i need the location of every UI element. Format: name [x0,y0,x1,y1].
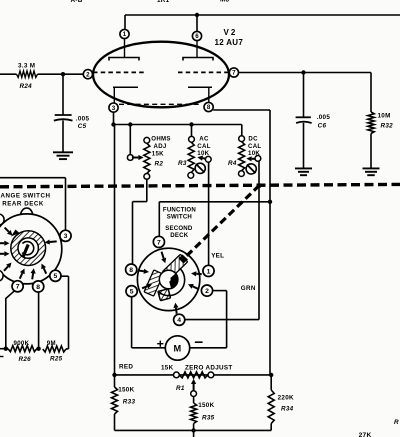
resistor R25 9M [43,346,66,352]
wire contact7 drop (range) [6,291,15,349]
contact 1 (func) [203,265,214,276]
grid section B [178,71,229,73]
wire contact2 dogleg [213,290,227,292]
potentiometer R2 [144,143,150,173]
resistor R33 150K [112,387,118,414]
svg-text:8: 8 [129,267,133,274]
svg-text:YEL: YEL [211,252,224,259]
terminal R3 wiper [205,156,211,162]
function rotor arc [158,268,185,295]
terminal R2 top [144,137,150,143]
terminal R4 bottom [239,171,245,177]
svg-text:2: 2 [205,288,209,295]
pin 1 [120,29,129,38]
tube V2 envelope [93,42,229,108]
wire C6 upper [303,73,305,118]
svg-text:27K: 27K [359,432,372,437]
contact 8 (func) [126,264,137,275]
wire meter minus side [190,347,227,349]
wire input left [0,73,17,75]
cut contact left-top (range) [0,214,4,225]
contact 5 arrow (func) [142,286,147,288]
wire R2 bottom drop [146,179,148,201]
range rotor pointer [22,242,34,255]
svg-text:R4: R4 [228,160,237,167]
ground R32 [363,167,380,169]
svg-text:4: 4 [177,317,181,324]
resistor R32 [368,112,374,134]
wire R33 lower [114,414,116,430]
svg-text:R34: R34 [281,406,294,413]
terminal R3 bottom [188,172,194,178]
svg-text:7: 7 [157,239,161,246]
wire R34 upper [270,375,272,390]
wire dogleg R2-contact8 [133,201,147,203]
junction C6 tap [301,70,305,74]
svg-text:R1: R1 [176,385,185,392]
mechanical gang dashed line [0,184,400,186]
wire contact7 net [159,201,270,203]
wire pin 3 drop [113,112,115,124]
svg-text:12 AU7: 12 AU7 [215,38,244,47]
svg-text:8: 8 [36,284,40,291]
wire R2 wiper riser [129,125,131,155]
potentiometer R3 [188,142,194,172]
wire zero adjust rail [115,374,272,376]
svg-text:10K: 10K [197,150,209,157]
contact 3 (range) [60,230,71,241]
svg-text:ANGE SWITCH: ANGE SWITCH [1,193,51,200]
svg-text:SECOND: SECOND [165,225,193,232]
svg-text:1R1: 1R1 [157,0,170,4]
svg-text:15K: 15K [161,365,174,372]
wire contact8 drop (range) [38,292,40,349]
contact 7 (func) [153,236,164,247]
contact 8 arrow (range) [31,273,34,279]
svg-text:7: 7 [232,70,236,77]
terminal R1 wiper [191,391,197,397]
svg-text:2: 2 [86,71,90,78]
wire R34 lower [270,424,272,431]
junction x270 y201 [268,200,272,204]
wire pin 1 riser [124,15,126,30]
contact 7 (range) [12,281,23,292]
svg-text:.005: .005 [76,116,90,123]
function switch body [137,248,199,310]
screwdriver adjust R4 [246,164,256,174]
resistor R35 150K [191,403,197,424]
terminal R1 left [174,372,180,378]
svg-text:7: 7 [16,284,20,291]
stub left edge [0,356,4,358]
cathode section A [113,86,138,88]
ground C6 [295,167,312,169]
junction gang diagonal [257,183,262,188]
svg-text:R2: R2 [155,161,164,168]
svg-text:R33: R33 [123,398,136,405]
svg-text:M8: M8 [220,0,230,4]
screwdriver adjust R3 [195,163,205,173]
terminal R4 wiper [255,156,261,162]
function rotor bar lower [144,270,163,296]
junction bottom [191,428,195,432]
junction bus R2 wiper [128,122,132,126]
wire R4 wiper drop [258,161,260,319]
pin 6 [192,31,201,40]
function rotor bar upper [162,254,187,279]
contact 2 arrow (func) [193,286,198,288]
contact 4 arrow (func) [175,308,178,314]
terminal R1 right [208,372,214,378]
range rotor notch [11,230,20,237]
wire meter plus side [132,347,166,349]
wire C6 lower [303,123,305,169]
wiper arrow R4 [252,158,258,160]
junction 900K left [4,347,8,351]
svg-text:150K: 150K [198,402,214,409]
pin 7 [229,68,238,77]
wire R1 wiper to R35 [193,397,195,404]
cut contact arrow left-bottom [4,266,8,270]
junction RED [112,373,116,377]
meter M [165,336,189,360]
terminal R3 top [189,136,195,142]
svg-text:1: 1 [207,268,211,275]
svg-text:GRN: GRN [241,285,256,292]
svg-text:C5: C5 [78,123,87,130]
junction top rail / pin 6 [195,13,199,17]
wire pin 8 out [213,109,270,111]
svg-text:CAL: CAL [248,143,261,150]
svg-text:REAR DECK: REAR DECK [2,200,44,207]
svg-text:R3: R3 [178,160,187,167]
wire pin8 vertical x270 [269,110,271,375]
pin 3 [109,103,118,112]
cathode section B [188,86,212,88]
wire R35 lower [193,424,195,431]
svg-text:DC: DC [248,136,258,143]
wiper arrow R2 [132,157,139,159]
wire pin 6 riser [196,15,198,32]
wiper arrow R1 [193,384,195,391]
resistor R34 220K [268,390,274,424]
wire contact 3 feed [0,177,66,179]
svg-text:R32: R32 [381,123,394,130]
svg-text:OHMS: OHMS [151,136,170,143]
svg-text:10K: 10K [248,150,260,157]
svg-text:SWITCH: SWITCH [167,213,192,220]
contact 5 arrow (range) [44,268,47,274]
svg-text:DECK: DECK [170,232,188,239]
wire R3 wiper to contact 1 [208,162,210,265]
svg-text:.005: .005 [317,114,331,121]
svg-text:C6: C6 [318,122,327,129]
wire pin 7 to R32 [239,72,371,74]
pin 8 [204,102,213,111]
wiper arrow R3 [203,157,208,160]
contact 5 (range) [50,270,61,281]
svg-text:V2: V2 [224,28,238,37]
svg-text:150K: 150K [118,387,134,394]
junction bus-left [111,122,115,126]
contact 4 (func) [174,314,185,325]
svg-text:ADJ: ADJ [154,143,167,150]
minus sign [195,341,203,343]
wire R4 top drop [241,125,243,136]
svg-text:CAL: CAL [197,143,210,150]
wire C5 upper [62,74,64,115]
svg-text:3: 3 [64,233,68,240]
contact 8 (range) [33,281,44,292]
svg-text:RED: RED [119,364,133,371]
cut contact arrow left-mid1 [0,242,4,244]
resistor R26 900K [8,346,37,352]
wire bottom rail [115,429,272,431]
svg-text:10M: 10M [378,113,391,120]
junction C5 tap [61,72,65,76]
terminal R2 wiper [127,155,133,161]
cut contact left-bottom (range) [0,270,3,281]
resistor R24 [17,71,38,77]
heater dashes [119,103,201,105]
potentiometer R4 [239,142,245,171]
pin 2 [83,70,92,79]
contact 3 arrow [50,240,57,243]
svg-text:R: R [394,419,399,426]
junction R26 R25 [36,347,40,351]
contact 7 arrow (func) [162,252,164,259]
range rotor ring [14,234,42,262]
capacitor C5 [55,114,72,116]
svg-text:220K: 220K [278,395,294,402]
svg-text:9M: 9M [47,340,56,347]
junction bus R3 [189,122,193,126]
cut contact arrow left-top [5,228,9,232]
plate section B [183,58,213,61]
svg-text:3: 3 [112,105,116,112]
wire left rail x114.5 [114,125,116,388]
svg-text:R25: R25 [50,356,63,363]
junction right rail [269,373,273,377]
function rotor hub [159,270,178,289]
svg-text:M: M [174,344,182,354]
svg-text:6: 6 [195,33,199,40]
terminal R2 bottom [144,174,150,180]
svg-text:15K: 15K [152,150,164,157]
wire contact 7 riser [158,202,160,237]
plate section A [109,58,139,61]
wire bottom stub [193,430,195,437]
wire contact5 to R25 [61,275,69,277]
svg-text:ZERO ADJUST: ZERO ADJUST [185,364,233,371]
svg-text:8: 8 [207,104,211,111]
contact 7 arrow (range) [20,273,23,279]
svg-text:5: 5 [130,289,134,296]
wire R32 upper [370,73,372,113]
wire R32 lower [370,134,372,169]
wire top B+ rail [125,14,400,16]
contact 2 (func) [201,285,212,296]
grid section A [93,71,146,73]
wire bus y124 [114,124,242,126]
svg-text:5: 5 [54,273,58,280]
plus sign [157,343,163,345]
wire contact 8 riser [132,202,134,265]
mechanical gang diagonal [180,185,260,262]
wire contact5 drop (func) [131,297,133,348]
contact 1 arrow (func) [196,273,202,275]
ground C5 [53,151,73,153]
cut contact arrow left-mid2 [0,253,4,255]
terminal R4 top [239,136,245,142]
wire C5 lower [62,120,64,152]
svg-text:900K: 900K [14,340,30,347]
svg-text:A-B: A-B [71,0,83,4]
wire R24 to pin 2 [38,73,84,75]
contact 8 arrow (func) [138,270,144,273]
svg-text:AC: AC [199,136,209,143]
wire contact4 to GRN net [185,319,259,321]
svg-text:R35: R35 [202,414,215,421]
svg-text:3.3 M: 3.3 M [18,63,35,70]
svg-text:R26: R26 [19,356,32,363]
range switch body [0,214,62,284]
contact 5 (func) [126,286,137,297]
wire R3 top riser [191,125,193,137]
wire left stub 900K [0,348,8,350]
svg-text:1: 1 [123,31,127,38]
capacitor C6 [296,116,311,118]
potentiometer R1 15K ZERO ADJUST [179,372,208,378]
svg-text:R24: R24 [20,83,33,90]
